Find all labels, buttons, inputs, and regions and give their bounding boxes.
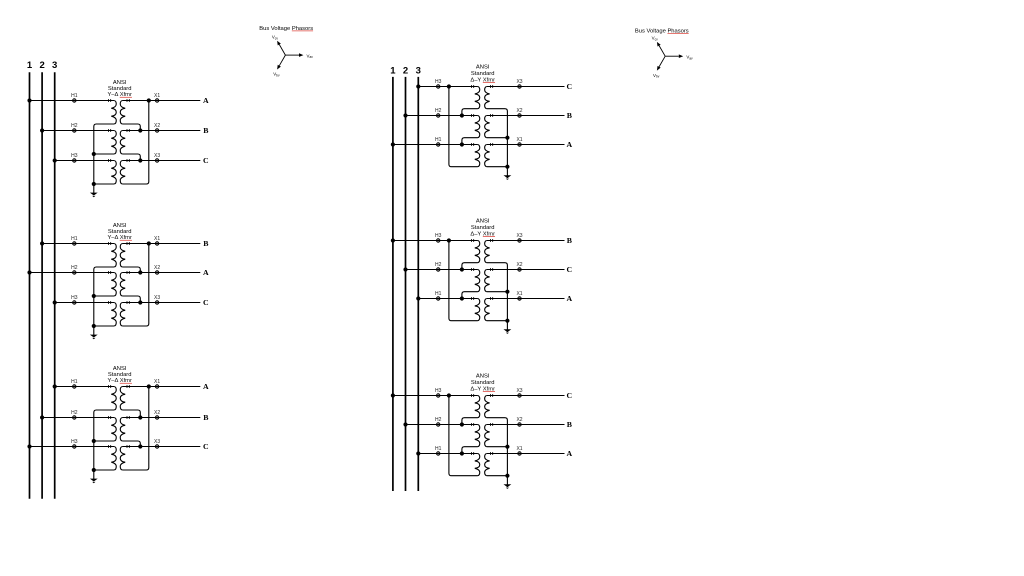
junction dot bus 2 / T1 H2: [40, 128, 44, 132]
secondary winding coil 2 of T5: [485, 270, 490, 292]
svg-text:H1: H1: [71, 93, 78, 99]
bus 3 (left group): [54, 72, 56, 499]
secondary winding coil 1 of T2: [120, 244, 125, 268]
junction dot T5 drop / middle H wire: [460, 267, 464, 271]
svg-text:C: C: [566, 82, 572, 91]
terminal circle T5 X3: [518, 239, 521, 242]
svg-text:Standard: Standard: [471, 71, 495, 77]
red hyperlink underline under Xfmr (T5): [483, 236, 495, 238]
secondary winding coil 3 of T3: [120, 447, 125, 471]
junction dot T6 drop / middle H wire: [460, 422, 464, 426]
wire T1 X3 lead to output C: [122, 160, 200, 162]
svg-text:H3: H3: [71, 439, 78, 445]
terminal circle T5 X1: [518, 297, 521, 300]
secondary winding coil 3 of T5: [485, 299, 490, 321]
svg-text:X2: X2: [154, 123, 160, 129]
terminal circle T5 H1: [437, 297, 440, 300]
wire T2 primary neutral (coil 1 bottom down): [94, 267, 114, 326]
wire T1 secondary coil 1 bottom drop to X2: [122, 124, 140, 131]
junction dot T4 drop / bottom H wire: [460, 142, 464, 146]
bus 1 (left group): [29, 72, 31, 499]
polarity tick marks T1 primary winding 1: [108, 99, 110, 102]
polarity tick marks T4 secondary winding 2: [490, 114, 492, 117]
polarity tick marks T2 secondary winding 1: [127, 242, 129, 245]
red hyperlink underline under Phasors (left): [292, 30, 313, 32]
junction dot T1 X1 wire / delta link: [147, 98, 151, 102]
svg-text:C: C: [203, 298, 209, 307]
svg-text:H2: H2: [435, 417, 442, 423]
terminal circle T5 X2: [518, 268, 521, 271]
svg-text:X1: X1: [154, 236, 160, 242]
svg-text:B: B: [203, 239, 208, 248]
primary winding coil 1 of T4: [475, 87, 480, 109]
svg-text:1: 1: [390, 66, 396, 77]
wire T2 coil 3 bottom to neutral: [94, 325, 114, 327]
svg-text:H1: H1: [71, 379, 78, 385]
junction dot bus 3 / T3 H1: [53, 384, 57, 388]
primary winding coil 1 of T1: [111, 101, 116, 125]
primary winding coil 3 of T5: [475, 299, 480, 321]
junction dot T5 top H wire / delta link: [447, 238, 451, 242]
svg-text:X3: X3: [154, 439, 160, 445]
svg-text:H3: H3: [435, 79, 442, 85]
secondary winding coil 1 of T4: [485, 87, 490, 109]
wire T4 primary coil 1 bottom drop: [462, 109, 478, 116]
wire T2 coil 2 bottom to neutral: [94, 295, 114, 297]
polarity tick marks T6 secondary winding 3: [490, 452, 492, 455]
wire T5 secondary coil 3 bottom to neutral: [487, 320, 508, 322]
polarity tick marks T6 primary winding 3: [471, 452, 473, 455]
wire T5 primary coil 2 bottom drop: [462, 292, 478, 299]
svg-text:ANSI: ANSI: [113, 223, 127, 229]
primary winding coil 2 of T1: [111, 131, 116, 155]
polarity tick marks T1 secondary winding 1: [127, 99, 129, 102]
svg-text:ANSI: ANSI: [113, 366, 127, 372]
red hyperlink underline under Xfmr (T1): [120, 96, 132, 98]
polarity tick marks T2 secondary winding 2: [127, 271, 129, 274]
wire T5 X2 lead to output C: [487, 269, 565, 271]
junction dot T5 neutral / coil 3 / ground: [505, 319, 509, 323]
terminal circle T6 H3: [437, 394, 440, 397]
wire T6 X1 lead to output A: [487, 453, 565, 455]
polarity tick marks T2 primary winding 3: [108, 301, 110, 304]
phasor arrow Vb (left): [277, 55, 285, 69]
wire T3 X3 lead to output C: [122, 446, 200, 448]
wire T1 X2 lead to output B: [122, 130, 200, 132]
svg-text:X2: X2: [516, 417, 522, 423]
junction dot bus 3 / T2 H3: [53, 300, 57, 304]
secondary winding coil 3 of T4: [485, 145, 490, 167]
wire T5 X1 lead to output A: [487, 298, 565, 300]
wire T4 secondary coil 3 bottom to neutral: [487, 166, 508, 168]
ground symbol T4: [504, 167, 512, 180]
wire T6 X2 lead to output B: [487, 424, 565, 426]
terminal circle T3 H2: [73, 416, 76, 419]
wire T4 delta link H3 down to coil 3 bottom: [449, 87, 478, 167]
terminal circle T5 H3: [437, 239, 440, 242]
svg-text:X1: X1: [516, 291, 522, 297]
polarity tick marks T6 secondary winding 2: [490, 423, 492, 426]
terminal circle T2 H3: [73, 301, 76, 304]
junction dot T6 top H wire / delta link: [447, 393, 451, 397]
bus 1 (right group): [392, 77, 394, 491]
polarity tick marks T3 primary winding 2: [108, 416, 110, 419]
polarity tick marks T1 primary winding 3: [108, 159, 110, 162]
primary winding coil 1 of T5: [475, 241, 480, 263]
secondary winding coil 3 of T6: [485, 454, 490, 476]
junction dot bus 2 / T3 H2: [40, 415, 44, 419]
svg-text:X2: X2: [154, 265, 160, 271]
red hyperlink underline under Xfmr (T2): [120, 239, 132, 241]
wire T2 X3 lead to output C: [122, 302, 200, 304]
terminal circle T2 X2: [155, 271, 158, 274]
polarity tick marks T4 secondary winding 3: [490, 143, 492, 146]
svg-text:H1: H1: [435, 291, 442, 297]
junction dot bus 3 / T5 H1: [416, 296, 420, 300]
polarity tick marks T1 secondary winding 3: [127, 159, 129, 162]
wire T4 X2 lead to output B: [487, 115, 565, 117]
polarity tick marks T6 primary winding 2: [471, 423, 473, 426]
terminal circle T4 H3: [437, 85, 440, 88]
wire T1 H1 lead from bus 1: [30, 100, 115, 102]
secondary winding coil 2 of T3: [120, 418, 125, 442]
wire T3 H2 lead from bus 2: [42, 417, 114, 419]
svg-text:A: A: [566, 294, 572, 303]
polarity tick marks T4 secondary winding 1: [490, 85, 492, 88]
svg-text:H2: H2: [71, 410, 78, 416]
wire T1 coil 3 bottom to neutral: [94, 183, 114, 185]
wire T2 X1 lead to output B: [122, 243, 200, 245]
wire T3 delta link X1 down to coil 3 bottom: [122, 387, 148, 471]
junction dot T5 drop / bottom H wire: [460, 296, 464, 300]
svg-text:ANSI: ANSI: [476, 219, 490, 225]
junction dot T1 drop / X2 wire: [138, 128, 142, 132]
wire T2 H2 lead from bus 1: [30, 272, 115, 274]
wire T4 H2 lead from bus 2: [406, 115, 478, 117]
wire T3 coil 2 bottom to neutral: [94, 440, 114, 442]
polarity tick marks T5 primary winding 3: [471, 297, 473, 300]
polarity tick marks T2 secondary winding 3: [127, 301, 129, 304]
svg-text:X2: X2: [516, 262, 522, 268]
junction dot T4 neutral / coil 3 / ground: [505, 165, 509, 169]
wire T2 H3 lead from bus 3: [55, 302, 114, 304]
junction dot T1 drop / X3 wire: [138, 158, 142, 162]
svg-text:2: 2: [403, 66, 408, 77]
svg-text:H2: H2: [71, 123, 78, 129]
bus 2 (right group): [405, 77, 407, 491]
wire T3 secondary coil 2 bottom drop to X3: [122, 441, 140, 447]
terminal circle T4 X2: [518, 114, 521, 117]
ground symbol T3: [90, 470, 98, 483]
svg-text:A: A: [566, 449, 572, 458]
primary winding coil 3 of T1: [111, 161, 116, 185]
wire T5 secondary neutral (coil 1 bottom down): [487, 263, 508, 321]
junction dot bus 1 / T1 H1: [27, 98, 31, 102]
svg-text:X3: X3: [154, 153, 160, 159]
svg-text:ANSI: ANSI: [476, 374, 490, 380]
secondary winding coil 2 of T6: [485, 425, 490, 447]
secondary winding coil 2 of T4: [485, 116, 490, 138]
terminal circle T6 H1: [437, 452, 440, 455]
junction dot bus 1 / T2 H2: [27, 270, 31, 274]
junction dot T2 drop / X3 wire: [138, 300, 142, 304]
svg-text:B: B: [567, 236, 572, 245]
svg-text:Standard: Standard: [471, 380, 495, 386]
wire T1 H2 lead from bus 2: [42, 130, 114, 132]
svg-text:X2: X2: [154, 410, 160, 416]
polarity tick marks T2 primary winding 1: [108, 242, 110, 245]
wire T2 delta link X1 down to coil 3 bottom: [122, 244, 148, 327]
svg-text:X2: X2: [516, 108, 522, 114]
junction dot T1 neutral / coil 2: [92, 152, 96, 156]
wire T5 secondary coil 2 bottom to neutral: [487, 291, 508, 293]
red hyperlink underline under Xfmr (T4): [483, 82, 495, 84]
wire T1 secondary coil 2 bottom drop to X3: [122, 154, 140, 161]
junction dot T6 neutral / coil 3 / ground: [505, 474, 509, 478]
junction dot bus 1 / T3 H3: [27, 444, 31, 448]
wire T6 H3 lead from bus 1: [393, 395, 478, 397]
junction dot bus 2 / T6 H2: [403, 422, 407, 426]
wire T2 secondary coil 1 bottom drop to X2: [122, 267, 140, 273]
junction dot T3 drop / X2 wire: [138, 415, 142, 419]
primary winding coil 2 of T5: [475, 270, 480, 292]
terminal circle T3 H3: [73, 445, 76, 448]
junction dot T4 drop / middle H wire: [460, 113, 464, 117]
wire T6 secondary coil 2 bottom to neutral: [487, 446, 508, 448]
polarity tick marks T3 primary winding 1: [108, 385, 110, 388]
terminal circle T1 X3: [155, 159, 158, 162]
terminal circle T4 X3: [518, 85, 521, 88]
terminal circle T6 H2: [437, 423, 440, 426]
bus 3 (right group): [417, 77, 419, 491]
wire T1 delta link X1 down to coil 3 bottom: [122, 101, 148, 185]
terminal circle T2 H2: [73, 271, 76, 274]
primary winding coil 1 of T3: [111, 387, 116, 411]
ground symbol T5: [504, 321, 512, 334]
wire T6 secondary neutral (coil 1 bottom down): [487, 418, 508, 476]
polarity tick marks T5 secondary winding 3: [490, 297, 492, 300]
svg-text:X3: X3: [516, 233, 522, 239]
svg-text:C: C: [203, 442, 209, 451]
red hyperlink underline under Phasors (right): [667, 32, 688, 34]
wire T4 primary coil 2 bottom drop: [462, 138, 478, 145]
terminal circle T5 H2: [437, 268, 440, 271]
svg-text:H2: H2: [71, 265, 78, 271]
bus 2 (left group): [41, 72, 43, 499]
primary winding coil 3 of T3: [111, 447, 116, 471]
svg-text:X3: X3: [516, 388, 522, 394]
wire T4 X1 lead to output A: [487, 144, 565, 146]
wire T5 primary coil 1 bottom drop: [462, 263, 478, 270]
terminal circle T3 X2: [155, 416, 158, 419]
svg-text:X3: X3: [154, 295, 160, 301]
polarity tick marks T5 secondary winding 2: [490, 268, 492, 271]
terminal circle T1 H2: [73, 129, 76, 132]
wire T3 H3 lead from bus 1: [30, 446, 115, 448]
wire T4 H1 lead from bus 1: [393, 144, 478, 146]
svg-text:X1: X1: [154, 379, 160, 385]
wire T1 H3 lead from bus 3: [55, 160, 114, 162]
wire T4 secondary neutral (coil 1 bottom down): [487, 109, 508, 167]
junction dot bus 3 / T6 H1: [416, 451, 420, 455]
junction dot bus 3 / T1 H3: [53, 158, 57, 162]
svg-text:B: B: [567, 420, 572, 429]
svg-text:X1: X1: [516, 137, 522, 143]
junction dot bus 1 / T6 H3: [391, 393, 395, 397]
svg-text:H3: H3: [435, 233, 442, 239]
primary winding coil 2 of T2: [111, 273, 116, 297]
phasor arrow Vc (left): [277, 41, 285, 55]
junction dot T4 neutral / coil 2: [505, 136, 509, 140]
polarity tick marks T4 primary winding 2: [471, 114, 473, 117]
wire T5 X3 lead to output B: [487, 240, 565, 242]
wire T6 X3 lead to output C: [487, 395, 565, 397]
wire T6 primary coil 2 bottom drop: [462, 447, 478, 454]
secondary winding coil 1 of T1: [120, 101, 125, 125]
svg-text:H3: H3: [71, 153, 78, 159]
primary winding coil 2 of T4: [475, 116, 480, 138]
svg-text:3: 3: [52, 60, 57, 71]
svg-text:C: C: [566, 265, 572, 274]
wire T6 H1 lead from bus 3: [418, 453, 477, 455]
terminal circle T3 H1: [73, 385, 76, 388]
svg-text:A: A: [203, 382, 209, 391]
red hyperlink underline under Xfmr (T3): [120, 382, 132, 384]
junction dot T1 neutral / coil 3 / ground: [92, 182, 96, 186]
phasor arrow Va (left): [285, 53, 303, 57]
svg-text:A: A: [203, 96, 209, 105]
junction dot T5 neutral / coil 2: [505, 290, 509, 294]
wire T3 X1 lead to output A: [122, 386, 200, 388]
polarity tick marks T1 secondary winding 2: [127, 129, 129, 132]
svg-text:X3: X3: [516, 79, 522, 85]
polarity tick marks T2 primary winding 2: [108, 271, 110, 274]
junction dot T3 X1 wire / delta link: [147, 384, 151, 388]
junction dot bus 1 / T5 H3: [391, 238, 395, 242]
terminal circle T4 H1: [437, 143, 440, 146]
svg-text:A: A: [566, 140, 572, 149]
terminal circle T1 X1: [155, 99, 158, 102]
primary winding coil 2 of T3: [111, 418, 116, 442]
secondary winding coil 1 of T5: [485, 241, 490, 263]
svg-text:1: 1: [27, 60, 33, 71]
terminal circle T2 X3: [155, 301, 158, 304]
wire T5 H3 lead from bus 1: [393, 240, 478, 242]
polarity tick marks T3 secondary winding 1: [127, 385, 129, 388]
svg-text:H3: H3: [71, 295, 78, 301]
phasor arrow Vc (right): [657, 42, 665, 56]
junction dot bus 2 / T4 H2: [403, 113, 407, 117]
terminal circle T1 X2: [155, 129, 158, 132]
terminal circle T6 X1: [518, 452, 521, 455]
terminal circle T4 H2: [437, 114, 440, 117]
junction dot T2 neutral / coil 3 / ground: [92, 324, 96, 328]
terminal circle T1 H3: [73, 159, 76, 162]
junction dot T4 top H wire / delta link: [447, 84, 451, 88]
polarity tick marks T6 secondary winding 1: [490, 394, 492, 397]
polarity tick marks T1 primary winding 2: [108, 129, 110, 132]
terminal circle T4 X1: [518, 143, 521, 146]
junction dot T3 neutral / coil 2: [92, 439, 96, 443]
svg-text:Standard: Standard: [471, 225, 495, 231]
primary winding coil 2 of T6: [475, 425, 480, 447]
wire T3 coil 3 bottom to neutral: [94, 469, 114, 471]
wire T6 secondary coil 3 bottom to neutral: [487, 475, 508, 477]
polarity tick marks T5 secondary winding 1: [490, 239, 492, 242]
polarity tick marks T3 primary winding 3: [108, 445, 110, 448]
primary winding coil 3 of T6: [475, 454, 480, 476]
wire T6 primary coil 1 bottom drop: [462, 418, 478, 425]
polarity tick marks T3 secondary winding 3: [127, 445, 129, 448]
svg-text:B: B: [203, 126, 208, 135]
terminal circle T2 X1: [155, 242, 158, 245]
wire T5 H2 lead from bus 2: [406, 269, 478, 271]
secondary winding coil 2 of T1: [120, 131, 125, 155]
secondary winding coil 1 of T6: [485, 396, 490, 418]
wire T1 coil 2 bottom to neutral: [94, 153, 114, 155]
primary winding coil 3 of T2: [111, 303, 116, 327]
secondary winding coil 1 of T3: [120, 387, 125, 411]
wire T4 H3 lead from bus 3: [418, 86, 477, 88]
terminal circle T2 H1: [73, 242, 76, 245]
svg-text:H1: H1: [435, 446, 442, 452]
polarity tick marks T4 primary winding 1: [471, 85, 473, 88]
svg-text:H3: H3: [435, 388, 442, 394]
svg-text:H2: H2: [435, 262, 442, 268]
primary winding coil 1 of T2: [111, 244, 116, 268]
red hyperlink underline under Xfmr (T6): [483, 391, 495, 393]
junction dot T3 neutral / coil 3 / ground: [92, 468, 96, 472]
junction dot T6 neutral / coil 2: [505, 445, 509, 449]
polarity tick marks T3 secondary winding 2: [127, 416, 129, 419]
polarity tick marks T5 primary winding 2: [471, 268, 473, 271]
wire T2 H1 lead from bus 2: [42, 243, 114, 245]
junction dot bus 2 / T2 H1: [40, 241, 44, 245]
ground symbol T2: [90, 326, 98, 339]
phasor arrow Va (right): [665, 54, 683, 58]
wire T4 secondary coil 2 bottom to neutral: [487, 137, 508, 139]
svg-text:X1: X1: [516, 446, 522, 452]
primary winding coil 1 of T6: [475, 396, 480, 418]
wire T1 X1 lead to output A: [122, 100, 200, 102]
junction dot T2 drop / X2 wire: [138, 270, 142, 274]
wire T5 delta link H3 down to coil 3 bottom: [449, 241, 478, 321]
polarity tick marks T6 primary winding 1: [471, 394, 473, 397]
svg-text:X1: X1: [154, 93, 160, 99]
wire T3 X2 lead to output B: [122, 417, 200, 419]
svg-text:C: C: [203, 156, 209, 165]
svg-text:H1: H1: [71, 236, 78, 242]
svg-text:B: B: [203, 413, 208, 422]
wire T2 X2 lead to output A: [122, 272, 200, 274]
svg-text:H1: H1: [435, 137, 442, 143]
polarity tick marks T5 primary winding 1: [471, 239, 473, 242]
terminal circle T6 X3: [518, 394, 521, 397]
terminal circle T6 X2: [518, 423, 521, 426]
junction dot bus 2 / T5 H2: [403, 267, 407, 271]
terminal circle T1 H1: [73, 99, 76, 102]
wire T3 primary neutral (coil 1 bottom down): [94, 410, 114, 470]
ground symbol T6: [504, 476, 512, 489]
terminal circle T3 X1: [155, 385, 158, 388]
junction dot T3 drop / X3 wire: [138, 444, 142, 448]
primary winding coil 3 of T4: [475, 145, 480, 167]
junction dot T2 X1 wire / delta link: [147, 241, 151, 245]
svg-text:ANSI: ANSI: [476, 65, 490, 71]
polarity tick marks T4 primary winding 3: [471, 143, 473, 146]
wire T6 delta link H3 down to coil 3 bottom: [449, 396, 478, 476]
svg-text:C: C: [566, 391, 572, 400]
